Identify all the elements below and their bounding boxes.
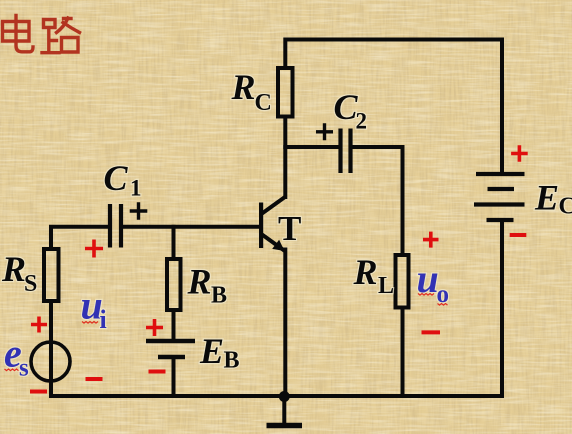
wire C2 left [285, 145, 340, 149]
plus ui (red) [85, 240, 103, 258]
battery EB plates [146, 341, 195, 357]
svg-text:S: S [24, 271, 37, 297]
svg-text:R: R [1, 249, 26, 289]
wire RL bottom [401, 308, 405, 397]
svg-text:E: E [534, 178, 559, 218]
wire EC bottom [500, 220, 504, 396]
svg-text:B: B [211, 283, 227, 309]
wire RB bottom to EB [172, 310, 176, 341]
capacitor C1 plates [110, 204, 121, 248]
svg-text:1: 1 [130, 176, 142, 201]
wire RB branch top [172, 227, 176, 259]
plus uo (red) [423, 232, 439, 248]
svg-text:T: T [278, 209, 301, 248]
plus C2 (black) [316, 123, 333, 140]
wire emitter column [283, 250, 287, 397]
capacitor C2 plates [341, 129, 351, 174]
label C1 [104, 158, 142, 201]
minus es (red) [30, 390, 47, 394]
wire input to base [121, 225, 261, 229]
resistor RS [44, 249, 59, 301]
wire left branch top [51, 227, 110, 249]
resistor RC [278, 68, 293, 117]
svg-text:s: s [19, 355, 29, 382]
svg-text:L: L [378, 273, 394, 299]
plus es (red) [31, 317, 47, 333]
source es circle [31, 342, 70, 381]
resistor RL [396, 255, 409, 308]
label EB [199, 331, 240, 374]
wire bottom rail [51, 394, 502, 398]
minus EC (red) [510, 233, 527, 237]
svg-text:R: R [231, 67, 256, 107]
squiggle under uo [418, 294, 434, 296]
label ui (blue) [81, 283, 107, 335]
svg-text:R: R [187, 262, 212, 302]
svg-text:i: i [100, 305, 107, 334]
plus C1 (black) [130, 202, 148, 220]
minus ui (red) [86, 377, 103, 381]
svg-text:E: E [199, 331, 224, 371]
squiggle under es [5, 369, 19, 371]
svg-text:2: 2 [356, 109, 368, 134]
minus uo (red) [422, 330, 441, 334]
label RC [231, 67, 272, 116]
transistor T [259, 197, 285, 251]
label C2 [334, 87, 368, 134]
wire EB bottom [172, 357, 176, 396]
resistor RB [167, 259, 181, 310]
svg-text:C: C [559, 194, 572, 220]
wire top rail: RC top to EC top [285, 40, 502, 175]
label EC [534, 178, 572, 220]
svg-text:R: R [353, 252, 378, 292]
plus EC (red) [511, 145, 528, 162]
plus EB (red) [146, 319, 163, 336]
svg-text:B: B [224, 348, 240, 374]
svg-text:C: C [255, 90, 272, 116]
label RB [187, 262, 228, 309]
wire left branch bottom (through source circle) [49, 303, 53, 396]
squiggle under ui [82, 322, 98, 324]
wire collector column (RC bottom to transistor) [283, 117, 287, 198]
label RS [1, 249, 37, 297]
battery EC plates [474, 174, 525, 220]
wire C2 right to RL top [351, 147, 403, 255]
svg-text:C: C [104, 158, 129, 198]
ground [267, 391, 303, 426]
label es (blue) [4, 331, 29, 382]
title 电路 (drawn strokes) [3, 16, 80, 53]
label RL [353, 252, 395, 299]
label uo (blue) [417, 256, 450, 308]
minus EB (red) [149, 370, 166, 374]
